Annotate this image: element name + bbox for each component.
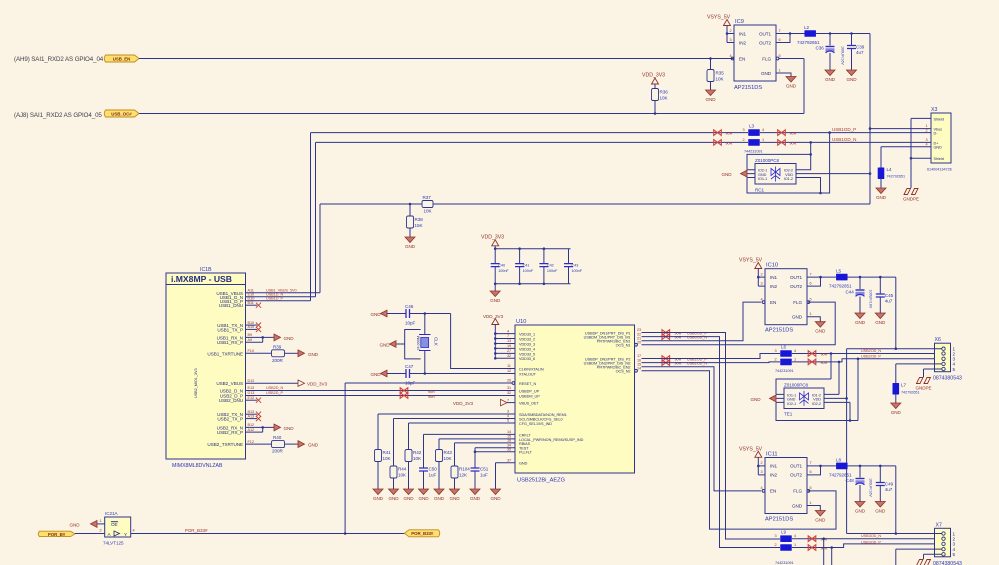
port POR_B#: [38, 531, 75, 536]
svg-text:GND: GND: [379, 342, 390, 347]
IC11 EN/FLG bubbles: [762, 490, 765, 493]
svg-text:IO1-1: IO1-1: [758, 177, 767, 181]
svg-text:VDD_3V3: VDD_3V3: [642, 73, 665, 79]
ground for C36: [825, 70, 836, 82]
svg-text:L2: L2: [804, 25, 810, 30]
svg-text:CFG_SEL1/I/S_IND: CFG_SEL1/I/S_IND: [519, 422, 552, 426]
wire USB3OD_N row to X7 pin2: [792, 538, 942, 540]
svg-text:VSYS_5V: VSYS_5V: [739, 446, 763, 452]
ground for IC9: [786, 77, 797, 89]
X7 pin circles and numbers: [942, 532, 945, 535]
svg-text:C51: C51: [480, 467, 489, 472]
svg-text:E13: E13: [248, 386, 255, 390]
svg-text:0874380543: 0874380543: [933, 561, 962, 565]
svg-text:90R: 90R: [821, 352, 828, 356]
capacitor C40 100nF: [494, 249, 496, 264]
svg-text:6: 6: [810, 281, 812, 285]
svg-text:4u7: 4u7: [885, 299, 893, 304]
svg-text:X3: X3: [931, 107, 937, 113]
wire OCS_N1 to IC10 FLG: [642, 302, 836, 345]
svg-text:1: 1: [810, 312, 812, 316]
wire RC1 channel2 loop: [747, 142, 811, 169]
svg-text:USB3OD_P: USB3OD_P: [861, 540, 881, 544]
impedance marks 90R after L9: [808, 536, 816, 542]
svg-text:2: 2: [761, 272, 763, 276]
svg-text:10K: 10K: [383, 456, 392, 461]
ground for IC11: [815, 511, 826, 523]
svg-text:12: 12: [507, 369, 511, 373]
inductor L7 742792651: [893, 383, 900, 395]
ground for L7: [891, 403, 902, 415]
svg-text:200R: 200R: [272, 449, 284, 454]
wire USB1_D_P pin: [246, 133, 311, 301]
no-connect marks USB2 unused pins: [246, 399, 258, 401]
wire USB1_D_N pin: [246, 142, 316, 296]
buffer IC21A 74LVT125 body: [105, 517, 131, 537]
wire IC9 OUT1/OUT2 join: [776, 34, 805, 43]
svg-text:D12: D12: [248, 379, 255, 383]
crystal CLK 24MHz: [424, 314, 426, 374]
svg-text:3: 3: [775, 349, 777, 353]
svg-text:R35: R35: [716, 71, 725, 76]
svg-text:7: 7: [507, 334, 509, 338]
svg-text:10K: 10K: [424, 209, 433, 214]
svg-text:E12: E12: [248, 396, 255, 400]
svg-text:R42: R42: [413, 450, 422, 455]
svg-text:USB1D_P: USB1D_P: [266, 296, 283, 300]
wire IC10 GND pin: [807, 317, 820, 322]
RC1 pin stubs: [747, 170, 755, 178]
ground for C45: [875, 313, 886, 325]
svg-text:5: 5: [810, 297, 812, 301]
svg-text:3: 3: [743, 128, 745, 132]
ground for R44: [388, 489, 399, 501]
svg-text:OCS_N2: OCS_N2: [616, 370, 631, 374]
wire X7 pin1 VBUS row: [847, 533, 942, 535]
svg-text:FLG: FLG: [762, 56, 771, 61]
svg-text:USB1_DNU: USB1_DNU: [219, 303, 243, 308]
svg-text:SCL/SMBCLK/CFG_SEL0: SCL/SMBCLK/CFG_SEL0: [519, 417, 563, 421]
svg-text:90R: 90R: [428, 395, 435, 399]
svg-text:CLKIN/XTALIN: CLKIN/XTALIN: [519, 367, 544, 371]
capacitor C39 4u7: [851, 34, 853, 46]
svg-text:GND: GND: [721, 172, 732, 177]
wire TE1 VDD stub: [824, 397, 847, 399]
wire X7 pin4 off-page: [896, 549, 942, 565]
wire POR_B33# net: [131, 533, 405, 535]
svg-text:OE: OE: [111, 522, 118, 527]
svg-text:5: 5: [507, 419, 509, 423]
wire IC11 OUT1/OUT2 join: [807, 466, 836, 475]
svg-text:742792651: 742792651: [797, 40, 820, 45]
wire X3 GND pin to L4: [881, 147, 923, 168]
svg-text:1: 1: [100, 519, 102, 523]
svg-text:4: 4: [794, 534, 796, 538]
svg-text:GND: GND: [761, 71, 772, 76]
svg-text:RBIAS: RBIAS: [519, 442, 531, 446]
svg-text:0874380543: 0874380543: [933, 376, 962, 382]
svg-text:R44: R44: [398, 467, 407, 472]
svg-text:100nF: 100nF: [523, 269, 534, 273]
svg-text:2: 2: [730, 29, 732, 33]
wire X3 shield net: [911, 118, 923, 188]
svg-text:200R: 200R: [272, 358, 284, 363]
connector X7 body 0874380543: [935, 528, 951, 557]
svg-text:IN2: IN2: [770, 473, 777, 478]
svg-text:GND: GND: [750, 397, 761, 402]
svg-text:Z01000PC8: Z01000PC8: [755, 158, 780, 163]
power-switch IC10 AP2151DS body: [765, 269, 807, 325]
resistor R44 10K: [390, 466, 397, 478]
svg-text:100nF: 100nF: [498, 269, 509, 273]
ground for USB2_RX: [274, 424, 281, 431]
svg-text:27: 27: [507, 349, 511, 353]
resistor R39 200R on USB1_TXRTUNE: [246, 352, 272, 354]
ground for R40: [298, 441, 305, 448]
svg-text:10K: 10K: [716, 77, 725, 82]
wire IC9 output rail: [816, 33, 870, 35]
wire X6 pin4 to L7: [896, 364, 942, 383]
svg-text:VDD33_4: VDD33_4: [519, 347, 535, 351]
ground for C49: [875, 502, 886, 514]
svg-text:32: 32: [507, 391, 511, 395]
wire RC1 channel1 loop: [747, 133, 830, 193]
wire USB1_VBUS_5V0 row: [320, 203, 870, 205]
svg-text:1uF: 1uF: [480, 473, 488, 478]
svg-text:5: 5: [810, 486, 812, 490]
svg-text:R37: R37: [423, 195, 432, 200]
svg-text:7: 7: [507, 398, 509, 402]
svg-text:100UF/16V: 100UF/16V: [868, 478, 872, 497]
IC9 pin stubs and EN/FLG bubbles: [727, 34, 734, 59]
svg-text:AP2151DS: AP2151DS: [734, 85, 762, 91]
svg-text:R41: R41: [383, 450, 392, 455]
svg-text:10K: 10K: [444, 456, 453, 461]
svg-text:742792651: 742792651: [901, 391, 920, 395]
svg-text:VDD33_3: VDD33_3: [519, 342, 535, 346]
svg-text:11: 11: [507, 364, 511, 368]
svg-text:Y: Y: [124, 532, 127, 537]
svg-text:4u7: 4u7: [885, 487, 893, 492]
wire USB2_RX pair to ground: [246, 427, 275, 432]
resistor R42 10K: [405, 450, 412, 462]
svg-text:4: 4: [507, 329, 509, 333]
svg-text:1: 1: [794, 543, 796, 547]
svg-text:3: 3: [730, 38, 732, 42]
svg-text:VDD33_6: VDD33_6: [519, 357, 535, 361]
svg-text:4: 4: [133, 529, 135, 533]
wire U10 SCL to R44: [394, 418, 516, 420]
svg-text:VDD33_1: VDD33_1: [519, 333, 535, 337]
ground for R39: [298, 350, 305, 357]
svg-text:2: 2: [743, 138, 745, 142]
U10 OCS bubbles: [635, 343, 638, 346]
wire U10 VDD33 pin stubs: [495, 333, 515, 335]
svg-text:C42: C42: [547, 263, 554, 267]
svg-text:IO2-2: IO2-2: [784, 168, 793, 172]
svg-text:IN1: IN1: [739, 31, 746, 36]
wire IC11 GND pin: [807, 506, 820, 511]
svg-text:EN: EN: [739, 56, 745, 61]
ground for U10: [490, 489, 501, 501]
ground for C44: [855, 313, 866, 325]
wire U10 RBIAS to R104: [455, 442, 516, 444]
svg-text:POR_B33#: POR_B33#: [185, 528, 208, 533]
wire Vbus to X3: [870, 128, 923, 130]
svg-text:742792651: 742792651: [829, 284, 852, 289]
svg-text:3: 3: [507, 410, 509, 414]
svg-text:USB1_TX_P: USB1_TX_P: [217, 327, 243, 332]
svg-text:IN2: IN2: [739, 40, 746, 45]
svg-text:C36: C36: [816, 46, 825, 51]
port USB_OC#: [104, 110, 139, 117]
ground GNDPE for X7: [915, 560, 931, 565]
ground for decoupling bank: [494, 284, 496, 291]
svg-text:A13: A13: [248, 414, 255, 418]
svg-text:3: 3: [761, 470, 763, 474]
svg-text:IC11: IC11: [766, 452, 778, 458]
svg-text:VDD33_5: VDD33_5: [519, 352, 535, 356]
svg-text:3: 3: [761, 281, 763, 285]
wire VSYS_5V to IN1/IN2: [726, 26, 728, 43]
wire USB0OD_N down to L9: [642, 337, 781, 548]
svg-text:L5: L5: [836, 269, 842, 274]
wire TE1 channel2 loop: [776, 359, 858, 421]
svg-text:PLLFLT: PLLFLT: [519, 451, 533, 455]
svg-text:C48: C48: [846, 478, 855, 483]
wire TVS feeds below X7: [824, 539, 832, 565]
svg-text:IN2: IN2: [770, 284, 777, 289]
svg-text:C50: C50: [429, 467, 438, 472]
svg-text:10K: 10K: [660, 96, 669, 101]
svg-text:C44: C44: [846, 290, 855, 295]
svg-text:USB_OC#: USB_OC#: [111, 111, 132, 116]
svg-text:744231091: 744231091: [775, 561, 794, 565]
svg-text:USB2_TX_P: USB2_TX_P: [217, 417, 243, 422]
svg-text:2: 2: [775, 543, 777, 547]
wire USB2_D_N to hub: [246, 390, 516, 392]
svg-text:USB1_RX_P: USB1_RX_P: [217, 340, 243, 345]
svg-text:USB2_TXRTUNE: USB2_TXRTUNE: [207, 442, 243, 447]
svg-text:R104: R104: [459, 467, 470, 472]
svg-text:C39: C39: [856, 45, 865, 50]
svg-text:USBDM_UP: USBDM_UP: [519, 394, 540, 398]
wire USB1_VBUS pin: [246, 204, 321, 293]
no-connect marks USB1 unused pins: [246, 304, 258, 306]
svg-text:R40: R40: [273, 435, 282, 440]
svg-text:1: 1: [762, 138, 764, 142]
ground for L4: [876, 188, 887, 200]
svg-text:USB2_RX_P: USB2_RX_P: [217, 430, 243, 435]
svg-text:GND: GND: [370, 372, 381, 377]
ground for C48: [855, 502, 866, 514]
svg-text:VDD_3V3: VDD_3V3: [483, 314, 504, 319]
svg-text:90R: 90R: [790, 141, 797, 145]
op-amp/power-switch IC9 AP2151DS body: [734, 25, 776, 81]
svg-text:IC21A: IC21A: [105, 511, 119, 516]
svg-text:TE1: TE1: [784, 412, 793, 417]
wire USB_OC# net to IC9 FLG: [139, 59, 804, 114]
impedance marks 90R on USB2D pair: [400, 388, 408, 394]
wire USBDM_DN2 to L6: [642, 361, 781, 364]
svg-text:10pF: 10pF: [405, 321, 416, 326]
svg-text:USB2512Bi_AEZG: USB2512Bi_AEZG: [517, 478, 565, 484]
resistor R37 10K: [422, 201, 433, 208]
svg-text:24.000M: 24.000M: [416, 336, 420, 350]
svg-text:IC9: IC9: [735, 19, 744, 25]
svg-text:VDD_3V3: VDD_3V3: [481, 234, 504, 240]
svg-text:1: 1: [926, 124, 928, 128]
inductor L9 common-mode choke 744231091: [780, 535, 792, 542]
svg-text:L4: L4: [887, 167, 893, 172]
svg-text:L9: L9: [781, 530, 787, 535]
wire PRTPWR1 to IC10 EN: [642, 302, 762, 341]
wire XTALOUT net: [410, 373, 516, 375]
ground for IC10: [815, 322, 826, 334]
resistor R43 10K: [436, 450, 443, 462]
ground GNDPE for X6: [915, 378, 931, 391]
power-switch IC11 AP2151DS body: [765, 458, 807, 514]
capacitor C41 100nF: [519, 249, 521, 264]
wire USB3OD_P row to X7 pin3: [792, 544, 942, 548]
impedance marks 90R on USB0OD pair: [662, 330, 670, 336]
U10 RESET_N bubble: [512, 382, 515, 385]
svg-text:Shield: Shield: [934, 157, 944, 161]
ground for C50: [418, 489, 429, 501]
svg-text:F10: F10: [248, 349, 254, 353]
svg-text:C43: C43: [572, 263, 579, 267]
svg-text:10K: 10K: [398, 473, 407, 478]
svg-text:A10: A10: [248, 325, 255, 329]
svg-text:2: 2: [761, 461, 763, 465]
wire USBDP_DN2 to L6: [642, 354, 781, 359]
svg-text:USB1_TXRTUNE: USB1_TXRTUNE: [207, 351, 243, 356]
port POR_B33#: [405, 530, 440, 537]
impedance marks 90R on USB2OD pair: [662, 356, 670, 362]
IC10 EN/FLG bubbles: [762, 301, 765, 304]
resistor R38 15K: [409, 204, 411, 216]
svg-text:GND: GND: [308, 443, 319, 448]
capacitor C43 100nF: [568, 249, 570, 264]
TE1 TVS diode glyph: [800, 391, 809, 406]
resistor R36: [652, 89, 659, 101]
svg-text:90R: 90R: [821, 361, 828, 365]
ground for R41: [373, 489, 384, 501]
svg-text:7: 7: [779, 29, 781, 33]
X6 pin circles and numbers: [942, 347, 945, 350]
svg-text:VBUS_DET: VBUS_DET: [519, 402, 539, 406]
svg-text:RC1: RC1: [755, 188, 765, 193]
svg-text:GND: GND: [370, 312, 381, 317]
wire IC21A OE pin: [97, 523, 105, 525]
inductor L3 common-mode choke 744231091: [748, 129, 760, 136]
svg-text:GND: GND: [69, 522, 80, 527]
svg-text:GND: GND: [284, 336, 295, 341]
wire VSYS_5V to IC11 IN1/IN2: [758, 457, 765, 475]
wire U10 CRFLT to C50: [424, 433, 516, 435]
ground for IC21A OE: [91, 521, 98, 528]
svg-text:15K: 15K: [415, 223, 424, 228]
svg-text:4: 4: [926, 142, 928, 146]
svg-text:100UF/16V: 100UF/16V: [868, 290, 872, 309]
ground for TE1 (left): [770, 395, 777, 402]
svg-text:IC1B: IC1B: [200, 267, 212, 273]
wire U10 TEST and PLLFLT to C51: [475, 448, 515, 468]
svg-text:D13: D13: [248, 391, 255, 395]
svg-text:RESET_N: RESET_N: [519, 382, 536, 386]
svg-text:A9: A9: [248, 338, 253, 342]
svg-text:R39: R39: [273, 344, 282, 349]
capacitor C42 100nF: [543, 249, 545, 264]
svg-text:1: 1: [779, 68, 781, 72]
svg-text:7: 7: [810, 272, 812, 276]
svg-text:26: 26: [507, 379, 511, 383]
svg-text:X7: X7: [936, 522, 942, 528]
svg-text:(AH9) SAI1_RXD2 AS GPIO4_04: (AH9) SAI1_RXD2 AS GPIO4_04: [14, 56, 104, 63]
svg-text:1: 1: [810, 501, 812, 505]
ground for R38: [405, 237, 416, 249]
svg-text:U10: U10: [516, 319, 526, 325]
svg-text:Z01000PC8: Z01000PC8: [784, 383, 809, 388]
svg-text:C41: C41: [523, 263, 530, 267]
X3 pin stubs: [923, 118, 931, 158]
svg-text:13: 13: [507, 339, 511, 343]
inductor L6 common-mode choke 744231091: [780, 350, 792, 357]
svg-text:USB_EN: USB_EN: [113, 56, 131, 61]
svg-text:SDA/SMBDATA/NON_REM1: SDA/SMBDATA/NON_REM1: [519, 413, 567, 417]
svg-text:4: 4: [794, 349, 796, 353]
IC9 GND pin wire: [776, 73, 791, 77]
inductor L2 742792651: [804, 30, 816, 37]
svg-text:USB3OD_N: USB3OD_N: [861, 534, 881, 538]
svg-text:GND: GND: [284, 426, 295, 431]
svg-text:1uF: 1uF: [429, 473, 437, 478]
wire TE1 channel1 loop: [776, 354, 839, 395]
svg-text:AP2151DS: AP2151DS: [765, 517, 793, 523]
svg-text:A12: A12: [248, 428, 255, 432]
svg-text:744231091: 744231091: [775, 369, 794, 373]
ground for C51: [470, 489, 481, 501]
IC U10 USB2512Bi hub body: [515, 325, 635, 473]
svg-text:4: 4: [762, 128, 764, 132]
wire RC1 VDD to VBUS: [796, 173, 870, 175]
svg-text:C40: C40: [498, 263, 505, 267]
svg-text:FLG: FLG: [793, 489, 802, 494]
power arrow VDD_3V3 on VBUS_DET: [507, 402, 515, 404]
capacitor C44 100UF/16V: [859, 277, 861, 289]
svg-text:OUT1: OUT1: [759, 31, 772, 36]
svg-text:3: 3: [926, 138, 928, 142]
svg-text:B13: B13: [248, 410, 255, 414]
wire IC10 output rail: [848, 276, 896, 278]
connector X3 USB body: [931, 113, 951, 163]
connector X6 body 0874380543: [935, 343, 951, 372]
wire VSYS_5V to IC10 IN1/IN2: [758, 269, 765, 287]
svg-text:100nF: 100nF: [547, 269, 558, 273]
wire USB2_D_P to hub: [246, 395, 516, 397]
svg-text:FLG: FLG: [793, 300, 802, 305]
svg-text:XTALOUT: XTALOUT: [519, 372, 537, 376]
svg-text:VDD: VDD: [785, 173, 793, 177]
svg-text:OUT2: OUT2: [790, 473, 803, 478]
capacitor C49 4u7: [879, 466, 881, 483]
svg-text:IN1: IN1: [770, 275, 777, 280]
wire POR_B# to IC21A input: [75, 533, 105, 535]
wire XTALIN net: [410, 314, 516, 369]
svg-text:AP2151DS: AP2151DS: [765, 328, 793, 334]
svg-text:OUT1: OUT1: [790, 275, 803, 280]
svg-text:OUT1: OUT1: [790, 464, 803, 469]
